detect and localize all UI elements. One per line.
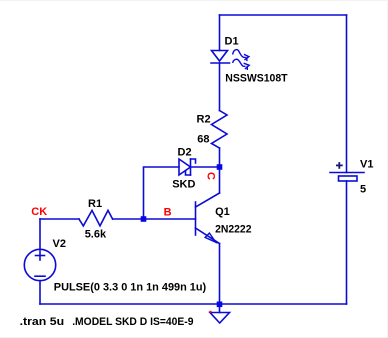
resistor R2 — [212, 111, 228, 149]
svg-text:C: C — [205, 172, 217, 180]
wire top rail — [220, 14, 347, 16]
diode D2 — [179, 159, 196, 175]
wire D1 anode — [219, 15, 221, 51]
svg-text:Q1: Q1 — [215, 206, 230, 218]
wire V2 minus to ground rail — [39, 281, 41, 304]
wire D1 cathode to R2 — [219, 63, 221, 111]
wire base rail — [40, 218, 79, 220]
svg-text:SKD: SKD — [172, 178, 195, 190]
red dot at ground corner — [210, 311, 212, 313]
svg-text:V1: V1 — [360, 158, 373, 170]
wire V1 top — [346, 15, 348, 173]
wire D2 cathode to node C — [191, 166, 220, 168]
ground symbol — [210, 304, 230, 323]
resistor R1 — [79, 210, 113, 226]
wire D2 anode branch — [144, 167, 180, 219]
wire R1 to Q1 base — [113, 218, 196, 220]
wire R2 to node C — [219, 148, 221, 167]
svg-text:NSSWS108T: NSSWS108T — [225, 73, 288, 85]
LED D1 — [211, 50, 249, 70]
svg-text:2N2222: 2N2222 — [215, 224, 251, 236]
wire node C to Q1 collector — [219, 167, 221, 193]
junction node B — [141, 216, 147, 222]
voltage source V1 battery — [330, 173, 364, 182]
svg-text:V2: V2 — [53, 238, 66, 250]
svg-text:68: 68 — [197, 133, 209, 145]
svg-text:.MODEL SKD D IS=40E-9: .MODEL SKD D IS=40E-9 — [72, 316, 193, 328]
wire V1 bottom — [346, 181, 348, 304]
wire Q1 emitter down — [219, 244, 221, 305]
svg-text:5.6k: 5.6k — [85, 229, 107, 241]
junction node C — [217, 164, 223, 170]
svg-text:R2: R2 — [197, 113, 211, 125]
svg-text:5: 5 — [360, 183, 366, 195]
svg-text:CK: CK — [31, 206, 47, 218]
svg-text:D1: D1 — [225, 35, 239, 47]
svg-text:PULSE(0 3.3 0 1n 1n 499n 1u): PULSE(0 3.3 0 1n 1n 499n 1u) — [54, 282, 207, 294]
svg-text:R1: R1 — [88, 198, 102, 210]
junction emitter-ground — [217, 302, 223, 308]
svg-text:.tran 5u: .tran 5u — [20, 316, 65, 328]
svg-text:D2: D2 — [178, 147, 192, 159]
V1 plus sign — [337, 163, 342, 168]
wire bottom ground rail — [40, 303, 347, 305]
transistor Q1 — [196, 193, 220, 244]
svg-text:B: B — [164, 207, 172, 219]
voltage source V2 — [24, 249, 55, 280]
wire CK to V2 — [39, 219, 41, 249]
